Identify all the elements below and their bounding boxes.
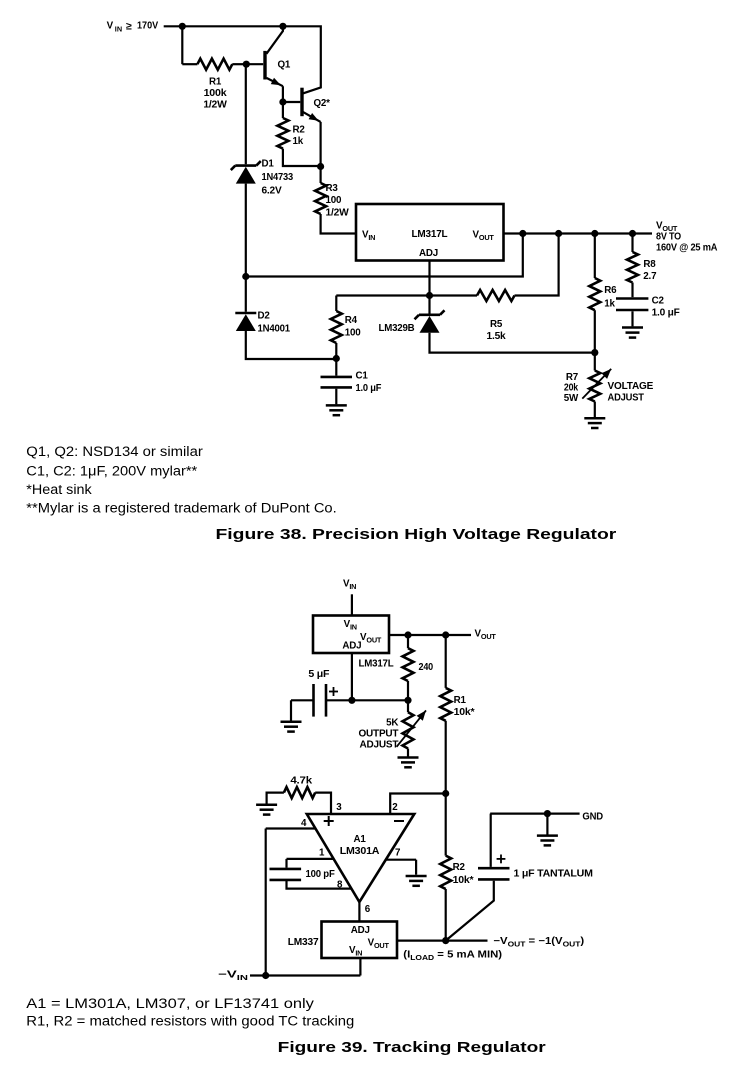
svg-text:7: 7 bbox=[395, 847, 401, 858]
svg-text:R8: R8 bbox=[643, 259, 656, 270]
svg-text:C2: C2 bbox=[652, 296, 665, 307]
svg-text:ADJ: ADJ bbox=[342, 641, 361, 652]
svg-text:5W: 5W bbox=[564, 393, 579, 404]
svg-text:2: 2 bbox=[392, 802, 398, 813]
svg-text:1N4001: 1N4001 bbox=[258, 323, 291, 334]
svg-text:160V @ 25 mA: 160V @ 25 mA bbox=[656, 242, 717, 253]
svg-text:Q2*: Q2* bbox=[314, 98, 331, 109]
svg-text:R5: R5 bbox=[490, 319, 503, 330]
svg-text:5K: 5K bbox=[386, 718, 398, 729]
svg-text:100: 100 bbox=[326, 195, 342, 206]
svg-text:LM317L: LM317L bbox=[412, 229, 448, 240]
svg-text:3: 3 bbox=[336, 802, 342, 813]
svg-text:8: 8 bbox=[337, 879, 343, 890]
svg-text:1k: 1k bbox=[293, 136, 304, 147]
svg-text:R2: R2 bbox=[293, 125, 306, 136]
svg-text:8V TO: 8V TO bbox=[656, 231, 682, 242]
svg-text:4.7k: 4.7k bbox=[290, 775, 312, 786]
svg-text:ADJ: ADJ bbox=[419, 248, 438, 259]
svg-text:ADJUST: ADJUST bbox=[360, 739, 399, 750]
svg-text:D2: D2 bbox=[258, 310, 271, 321]
svg-text:1.5k: 1.5k bbox=[487, 331, 507, 342]
svg-text:*Heat sink: *Heat sink bbox=[26, 482, 92, 497]
svg-text:R2: R2 bbox=[453, 862, 466, 873]
svg-text:240: 240 bbox=[419, 662, 434, 673]
svg-text:Figure 39. Tracking Regulator: Figure 39. Tracking Regulator bbox=[278, 1039, 546, 1056]
svg-text:A1: A1 bbox=[353, 834, 366, 845]
svg-text:C1, C2: 1μF, 200V mylar**: C1, C2: 1μF, 200V mylar** bbox=[26, 464, 197, 479]
svg-text:R7: R7 bbox=[566, 372, 579, 383]
svg-text:2.7: 2.7 bbox=[643, 271, 657, 282]
svg-text:LM317L: LM317L bbox=[359, 659, 394, 670]
svg-text:4: 4 bbox=[301, 818, 307, 829]
svg-text:1.0 μF: 1.0 μF bbox=[652, 307, 680, 318]
svg-text:100: 100 bbox=[345, 327, 361, 338]
svg-text:1.0 μF: 1.0 μF bbox=[356, 383, 382, 394]
svg-text:OUTPUT: OUTPUT bbox=[359, 728, 399, 739]
svg-text:ADJ: ADJ bbox=[351, 925, 370, 936]
svg-text:10k*: 10k* bbox=[453, 875, 474, 886]
svg-text:1N4733: 1N4733 bbox=[262, 172, 294, 183]
svg-text:Q1, Q2: NSD134 or similar: Q1, Q2: NSD134 or similar bbox=[26, 444, 203, 459]
svg-text:6: 6 bbox=[365, 904, 371, 915]
svg-text:R6: R6 bbox=[604, 285, 617, 296]
svg-text:LM301A: LM301A bbox=[340, 846, 380, 857]
svg-text:VOLTAGE: VOLTAGE bbox=[608, 381, 654, 392]
svg-text:1/2W: 1/2W bbox=[203, 99, 227, 110]
svg-text:ADJUST: ADJUST bbox=[608, 392, 644, 403]
svg-text:1/2W: 1/2W bbox=[326, 207, 350, 218]
svg-text:R4: R4 bbox=[345, 315, 358, 326]
svg-text:10k*: 10k* bbox=[454, 707, 475, 718]
svg-text:20k: 20k bbox=[564, 383, 579, 394]
svg-text:LM337: LM337 bbox=[288, 937, 319, 948]
svg-text:GND: GND bbox=[582, 811, 603, 822]
svg-text:5 μF: 5 μF bbox=[308, 669, 329, 680]
svg-text:R1: R1 bbox=[209, 76, 222, 87]
svg-text:**Mylar is a registered tradem: **Mylar is a registered trademark of DuP… bbox=[26, 501, 336, 516]
svg-text:C1: C1 bbox=[356, 370, 369, 381]
svg-text:Q1: Q1 bbox=[278, 60, 291, 71]
svg-text:D1: D1 bbox=[262, 158, 275, 169]
svg-text:R3: R3 bbox=[326, 183, 339, 194]
svg-text:6.2V: 6.2V bbox=[262, 185, 283, 196]
svg-text:R1, R2 = matched resistors wit: R1, R2 = matched resistors with good TC … bbox=[26, 1014, 354, 1029]
svg-text:1 μF TANTALUM: 1 μF TANTALUM bbox=[514, 868, 593, 879]
svg-text:R1: R1 bbox=[454, 695, 467, 706]
svg-text:1k: 1k bbox=[604, 298, 615, 309]
svg-text:100k: 100k bbox=[204, 88, 228, 99]
svg-text:100 pF: 100 pF bbox=[306, 869, 335, 880]
svg-text:LM329B: LM329B bbox=[379, 323, 415, 334]
svg-text:A1 = LM301A, LM307, or LF13741: A1 = LM301A, LM307, or LF13741 only bbox=[26, 996, 314, 1011]
svg-text:1: 1 bbox=[319, 847, 325, 858]
svg-text:Figure 38. Precision High Vol: Figure 38. Precision High Voltage Regula… bbox=[216, 526, 617, 543]
